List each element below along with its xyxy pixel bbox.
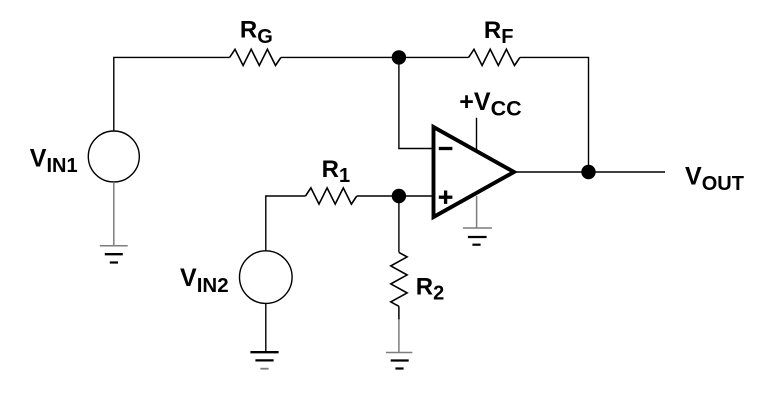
resistor R2: [391, 252, 407, 306]
wire R2 to ground (black then gray): [398, 306, 400, 352]
node output junction: [581, 165, 595, 179]
wire VIN1 to ground (gray stem): [113, 182, 115, 246]
wire from RF down to output node: [520, 57, 589, 172]
power +VCC wire: [476, 118, 478, 150]
wire from VIN1 top to RG: [114, 57, 230, 131]
source VIN1: [88, 131, 139, 182]
wire from node A down to inverting input: [399, 57, 434, 148]
ground (VIN1): [100, 246, 128, 263]
wire VIN2 bottom to ground: [265, 303, 267, 352]
node junction at inverting feedback: [392, 50, 406, 64]
wire node to R2: [398, 196, 400, 252]
wire op-amp output: [514, 171, 665, 173]
resistor RG: [230, 49, 281, 65]
ground (VIN2): [250, 352, 278, 369]
resistor R1: [306, 188, 357, 204]
resistor RF: [469, 49, 520, 65]
ground (R2): [386, 353, 413, 369]
op-amp inverting input marker: [439, 147, 453, 150]
ground (op-amp): [463, 196, 492, 245]
node non-inverting junction: [392, 189, 406, 203]
op-amp non-inverting input marker: [439, 191, 453, 204]
wire R1 to non-inverting node and into op-amp: [357, 195, 434, 197]
wire from RG to RF through node: [281, 56, 469, 58]
source VIN2: [239, 251, 292, 304]
wire VIN2 top to R1: [266, 196, 306, 251]
op-amp U1: [434, 127, 515, 217]
